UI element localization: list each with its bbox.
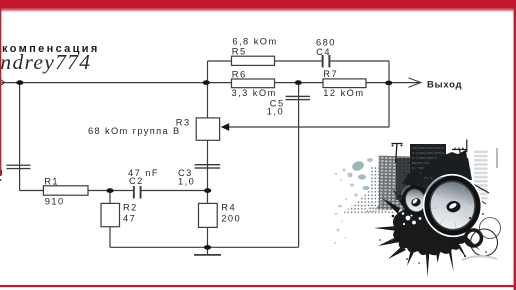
svg-text:6,8 kOm: 6,8 kOm (232, 36, 277, 46)
svg-text:1,0: 1,0 (267, 106, 284, 116)
svg-text:3,3 kOm: 3,3 kOm (232, 88, 277, 98)
svg-text:C2: C2 (129, 176, 144, 186)
svg-text:R4: R4 (221, 203, 236, 213)
svg-text:68 kOm группа В: 68 kOm группа В (88, 126, 181, 136)
svg-text:Andrey774: Andrey774 (0, 50, 91, 74)
svg-text:R6: R6 (232, 69, 247, 79)
svg-text:R2: R2 (123, 203, 138, 213)
svg-text:R7: R7 (323, 69, 338, 79)
svg-text:910: 910 (45, 197, 65, 207)
svg-text:12 kOm: 12 kOm (323, 88, 364, 98)
svg-text:R5: R5 (232, 46, 247, 56)
svg-text:47: 47 (123, 213, 136, 223)
svg-text:200: 200 (221, 213, 241, 223)
svg-text:R1: R1 (44, 177, 59, 187)
svg-text:1,0: 1,0 (178, 176, 195, 186)
svg-text:C4: C4 (316, 47, 331, 57)
svg-text:680: 680 (316, 37, 336, 47)
svg-text:Выход: Выход (427, 79, 462, 90)
